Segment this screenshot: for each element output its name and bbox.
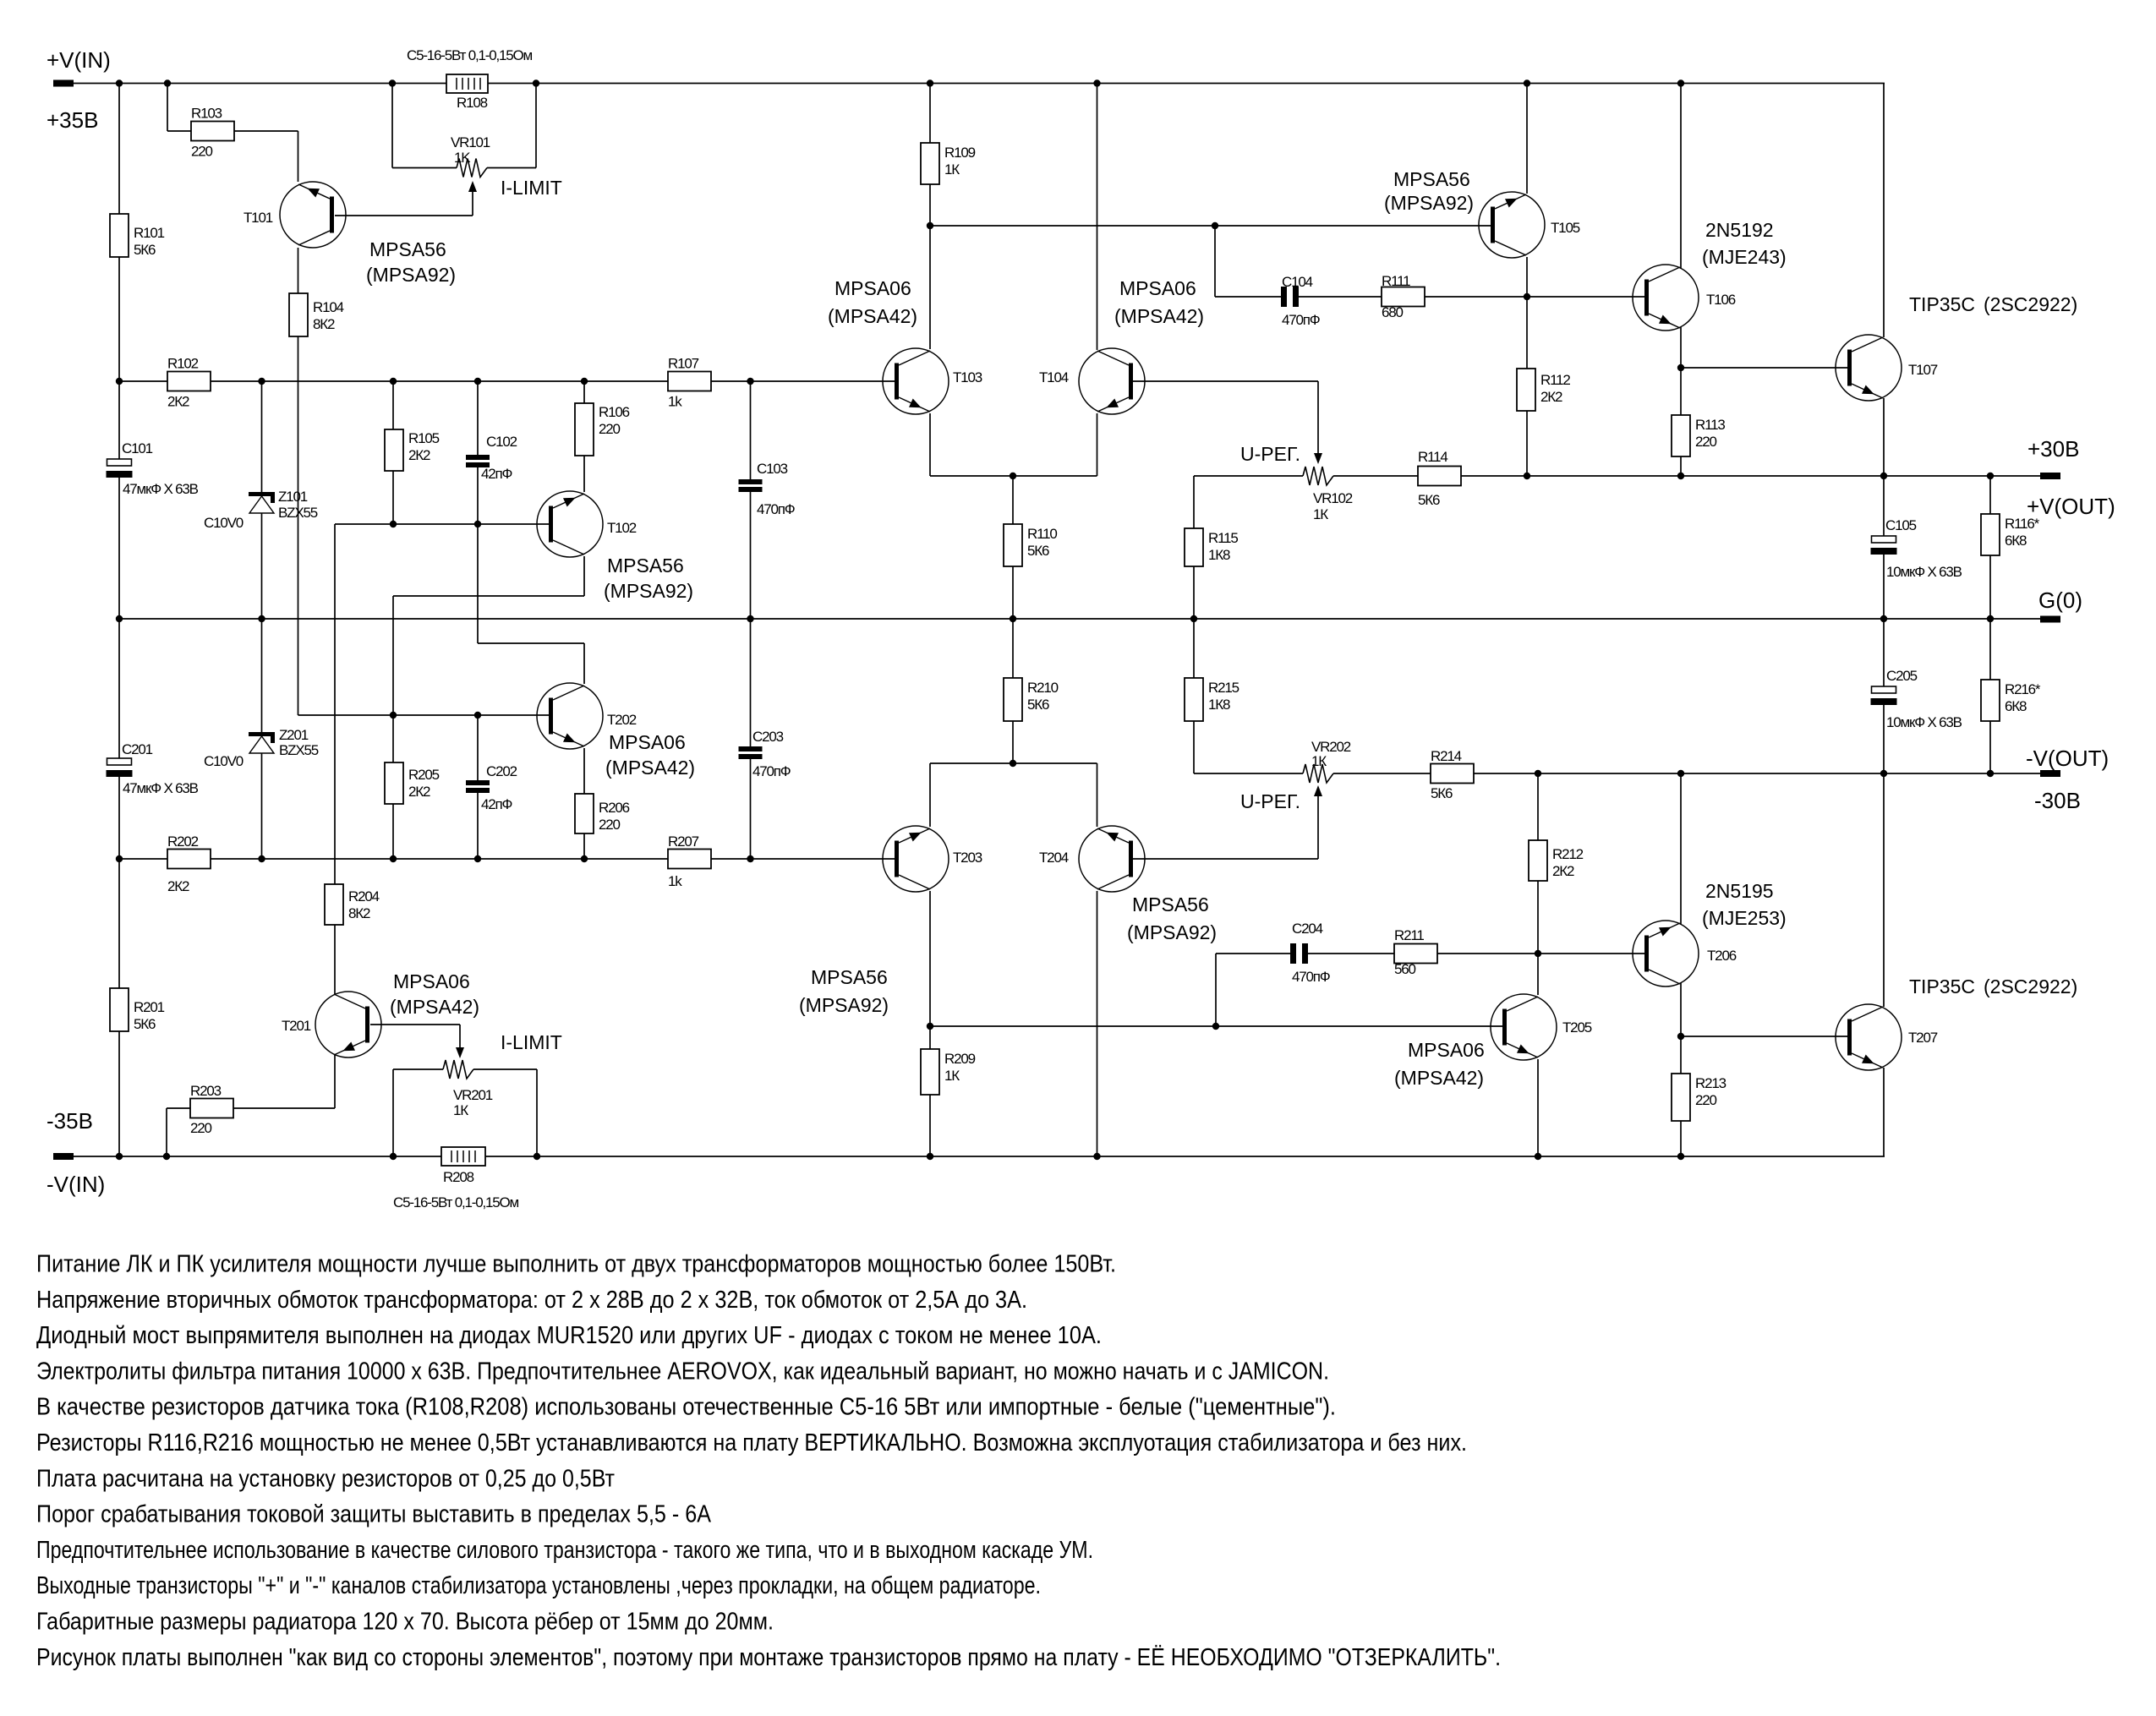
wire row C main	[119, 380, 895, 382]
svg-text:(MPSA42): (MPSA42)	[605, 757, 695, 779]
wire R111 to T105 collector	[1425, 296, 1527, 298]
svg-text:(2SC2922): (2SC2922)	[1984, 975, 2077, 997]
svg-text:R114: R114	[1418, 449, 1447, 465]
svg-text:(MJE253): (MJE253)	[1702, 907, 1787, 929]
resistor R105	[385, 429, 403, 471]
junction G rail / C103-C203	[747, 615, 753, 622]
wire C202 to row Cb	[477, 793, 479, 859]
svg-text:T105: T105	[1551, 220, 1580, 236]
wire VR102 to R114	[1333, 475, 1418, 477]
terminal bar -V(IN)	[53, 1153, 74, 1160]
junction T102 base row / C102	[474, 521, 481, 527]
svg-text:5К6: 5К6	[1027, 697, 1049, 713]
wire VR101 right lead vertical	[535, 84, 537, 168]
wire R116 to G rail	[1989, 555, 1991, 619]
svg-text:R206: R206	[599, 800, 630, 816]
svg-text:BZX55: BZX55	[278, 505, 318, 521]
resistor R104	[289, 293, 308, 336]
junction row C / R106	[581, 378, 588, 385]
resistor R205	[385, 762, 403, 804]
svg-text:2К2: 2К2	[167, 878, 189, 894]
svg-text:+35В: +35В	[47, 107, 98, 133]
resistor R109	[921, 143, 939, 184]
resistor R203	[190, 1099, 233, 1118]
wire T205 emitter down	[1537, 1059, 1539, 1156]
wire Z101 bottom lead	[261, 513, 263, 619]
junction G rail / R115-R215	[1190, 615, 1197, 622]
wire VR201 left lead vertical	[392, 1069, 394, 1156]
svg-text:В качестве резисторов датчика: В качестве резисторов датчика тока (R108…	[36, 1394, 1336, 1421]
svg-text:MPSA56: MPSA56	[369, 238, 446, 260]
svg-text:Диодный мост выпрямителя выпо: Диодный мост выпрямителя выполнен на дио…	[36, 1322, 1102, 1349]
wire row Cb main	[119, 858, 895, 860]
svg-text:47мкФ Х 63В: 47мкФ Х 63В	[123, 780, 199, 796]
capacitor C202	[466, 780, 490, 785]
svg-text:42пФ: 42пФ	[481, 796, 512, 812]
svg-text:Напряжение вторичных обмоток т: Напряжение вторичных обмоток трансформат…	[36, 1287, 1027, 1314]
wire T101 base to VR101 wiper	[335, 215, 473, 216]
capacitor C102	[466, 455, 490, 460]
transistor T103	[883, 348, 949, 414]
wire R216 to -V row	[1989, 721, 1991, 773]
wire T107 emitter down	[1883, 398, 1885, 476]
junction +30V / R116	[1987, 473, 1994, 479]
svg-text:470пФ: 470пФ	[1292, 969, 1330, 985]
svg-text:R201: R201	[134, 999, 165, 1015]
svg-text:R116*: R116*	[2005, 516, 2040, 532]
wire row B (T105 base row)	[930, 225, 1491, 227]
svg-text:2К2: 2К2	[1540, 389, 1562, 405]
svg-text:Резисторы R116,R216 мощностью: Резисторы R116,R216 мощностью не менее 0…	[36, 1429, 1467, 1456]
transistor T201	[315, 992, 381, 1057]
capacitor C201	[107, 758, 132, 765]
wire T204 collector down	[1097, 891, 1098, 1156]
wire R112 top lead	[1526, 297, 1528, 369]
svg-text:220: 220	[599, 421, 621, 437]
wire T202 emitter to R206	[583, 748, 585, 794]
wire T101 collector to R104	[298, 248, 299, 293]
svg-text:5К6: 5К6	[134, 242, 156, 258]
wire R101 to row C	[118, 257, 120, 381]
svg-text:-V(IN): -V(IN)	[47, 1172, 105, 1197]
junction row Cb / Z201	[258, 855, 265, 862]
wire R115 corner lead	[1194, 475, 1303, 477]
svg-text:5К6: 5К6	[1431, 785, 1453, 801]
svg-text:R209: R209	[944, 1051, 976, 1067]
svg-text:470пФ: 470пФ	[757, 501, 795, 517]
wire R103 left lead	[167, 130, 191, 132]
resistor R216	[1981, 680, 2000, 721]
wire R111 row to T106 base	[1527, 296, 1646, 298]
wire R115 to G rail	[1193, 566, 1195, 619]
resistor R202	[167, 850, 211, 869]
svg-text:+V(OUT): +V(OUT)	[2027, 494, 2115, 519]
wire R212 to R211 row	[1537, 881, 1539, 954]
svg-text:С5-16-5Вт 0,1-0,15Ом: С5-16-5Вт 0,1-0,15Ом	[407, 47, 533, 63]
resistor R101	[110, 214, 129, 257]
wire T202 base row to R205	[392, 715, 394, 762]
svg-text:42пФ: 42пФ	[481, 466, 512, 482]
junction row C / C103	[747, 378, 753, 385]
junction R211 row / R212	[1535, 950, 1541, 957]
junction +35V rail / R109	[927, 79, 933, 86]
wire R112 to +30V row	[1526, 411, 1528, 476]
wire -35V rail	[74, 1156, 1885, 1157]
wire jog down to T202 base row	[392, 596, 394, 715]
capacitor C104	[1281, 287, 1287, 307]
wire T104 base right	[1131, 380, 1318, 382]
junction +35V rail / R101 col	[116, 79, 123, 86]
svg-text:VR101: VR101	[451, 134, 490, 150]
svg-text:(MPSA92): (MPSA92)	[366, 264, 456, 286]
svg-text:T203: T203	[953, 850, 982, 866]
svg-text:2N5192: 2N5192	[1705, 219, 1774, 241]
svg-text:5К6: 5К6	[1027, 543, 1049, 559]
svg-text:-30В: -30В	[2034, 788, 2081, 813]
junction row Cb / C202	[474, 855, 481, 862]
wire emitter join row D	[930, 475, 1097, 477]
svg-text:R110: R110	[1027, 526, 1057, 542]
svg-text:Питание ЛК и ПК усилителя мощн: Питание ЛК и ПК усилителя мощности лучше…	[36, 1251, 1116, 1278]
wire C204 to R211	[1308, 953, 1394, 954]
wire T104 emitter down	[1097, 413, 1098, 476]
resistor R107	[668, 372, 711, 391]
svg-text:R103: R103	[191, 106, 222, 122]
svg-text:5К6: 5К6	[134, 1016, 156, 1032]
transistor T204	[1079, 826, 1145, 892]
svg-text:1К: 1К	[1313, 506, 1328, 522]
wire Z201 bottom lead	[261, 753, 263, 859]
svg-text:T103: T103	[953, 369, 982, 385]
wire R209 to -35V rail	[929, 1095, 931, 1156]
wiper arrow VR202	[1317, 795, 1319, 859]
wire T107 base row	[1681, 367, 1849, 369]
junction row D / R110	[1010, 473, 1016, 479]
wire R206 to row Cb	[583, 833, 585, 859]
svg-text:T101: T101	[244, 210, 273, 226]
wire VR101 left lead horizontal	[392, 167, 457, 169]
wire C204 left lead	[1216, 953, 1290, 954]
svg-text:G(0): G(0)	[2038, 587, 2082, 613]
wire C203 to row Cb	[750, 759, 752, 859]
wire R103 right lead	[234, 130, 298, 132]
svg-text:+30В: +30В	[2027, 436, 2079, 462]
wire C105 to G rail	[1883, 555, 1885, 619]
wire VR201 right lead vertical	[536, 1069, 538, 1156]
svg-text:C201: C201	[122, 741, 153, 757]
resistor R108 (current sense)	[446, 74, 488, 93]
wire R215 bottom lead	[1193, 721, 1195, 773]
resistor R112	[1517, 369, 1535, 411]
wire row Cb to R201	[118, 859, 120, 988]
junction -V / T206 collector	[1677, 770, 1684, 777]
wire T102 base row	[335, 523, 550, 525]
svg-text:1K: 1K	[454, 150, 471, 166]
svg-text:1k: 1k	[668, 873, 682, 889]
svg-text:Выходные транзисторы "+" и "-": Выходные транзисторы "+" и "-" каналов с…	[36, 1572, 1041, 1599]
wire rail to R109	[929, 84, 931, 144]
wire row C to R105	[392, 381, 394, 429]
resistor R209	[921, 1049, 939, 1095]
wire G(0) rail	[119, 618, 2040, 620]
svg-text:MPSA06: MPSA06	[834, 277, 911, 299]
svg-text:T201: T201	[282, 1018, 311, 1034]
wire -V row main	[1474, 773, 2040, 774]
resistor R207	[668, 850, 711, 869]
junction row C / left column	[116, 378, 123, 385]
svg-text:MPSA56: MPSA56	[1132, 894, 1209, 915]
wire R213 top lead	[1680, 1036, 1682, 1074]
svg-text:R212: R212	[1552, 846, 1584, 862]
svg-text:T107: T107	[1908, 362, 1938, 378]
resistor R103	[191, 122, 234, 141]
svg-text:470пФ: 470пФ	[752, 763, 791, 779]
wire R113 to +30V row	[1680, 456, 1682, 476]
svg-text:2К2: 2К2	[408, 447, 430, 463]
svg-text:R107: R107	[668, 356, 699, 372]
wire +35V rail	[74, 83, 1885, 85]
wire G rail to C201	[118, 619, 120, 758]
junction G rail / left column	[116, 615, 123, 622]
junction G rail / C105-C205	[1880, 615, 1887, 622]
transistor T106	[1633, 265, 1699, 331]
junction row Cb / R206	[581, 855, 588, 862]
svg-text:VR102: VR102	[1313, 490, 1353, 506]
svg-text:C10V0: C10V0	[204, 515, 244, 531]
svg-text:Плата расчитана на установку р: Плата расчитана на установку резисторов …	[36, 1465, 615, 1492]
wire +30V row main	[1461, 475, 2040, 477]
svg-text:47мкФ Х 63В: 47мкФ Х 63В	[123, 481, 199, 497]
wire emitter join row Db	[930, 762, 1097, 764]
capacitor C105	[1872, 536, 1896, 543]
wire Z201 top lead	[261, 619, 263, 732]
wire Z101 top lead	[261, 381, 263, 492]
junction T207 base row / T206 emitter	[1677, 1033, 1684, 1040]
transistor T203	[883, 826, 949, 892]
svg-text:(MJE243): (MJE243)	[1702, 246, 1787, 268]
wire T204 emitter up	[1097, 763, 1098, 827]
resistor R115	[1185, 528, 1203, 566]
wire T203 collector down	[929, 891, 931, 1026]
wire G rail to C203	[750, 619, 752, 746]
svg-text:MPSA06: MPSA06	[393, 970, 470, 992]
resistor R201	[110, 988, 129, 1031]
junction row Db / R210	[1010, 760, 1016, 767]
wire row C to C101	[118, 381, 120, 459]
junction -35V rail / R201	[116, 1153, 123, 1160]
svg-text:(MPSA42): (MPSA42)	[828, 305, 917, 327]
wire C101 to G rail	[118, 478, 120, 619]
svg-text:2К2: 2К2	[167, 394, 189, 410]
svg-text:6К8: 6К8	[2005, 533, 2027, 549]
svg-text:R102: R102	[167, 356, 199, 372]
svg-text:R105: R105	[408, 430, 440, 446]
svg-text:+V(IN): +V(IN)	[47, 47, 111, 73]
svg-text:(MPSA42): (MPSA42)	[1394, 1067, 1484, 1089]
wire T201 base to VR201 wiper	[370, 1024, 460, 1025]
svg-text:(MPSA42): (MPSA42)	[390, 996, 479, 1018]
wire G rail to R216	[1989, 619, 1991, 680]
svg-text:1К: 1К	[1311, 753, 1327, 769]
junction T202 base row / R205	[390, 712, 397, 719]
svg-text:R111: R111	[1382, 273, 1410, 289]
svg-text:1К8: 1К8	[1208, 697, 1230, 713]
wire VR201 right lead horizontal	[473, 1068, 537, 1070]
svg-text:T205: T205	[1562, 1019, 1592, 1036]
wire R201 to -35V rail	[118, 1031, 120, 1156]
junction +30V / R113	[1677, 473, 1684, 479]
wire +30V to C105	[1883, 476, 1885, 536]
junction row C / R105	[390, 378, 397, 385]
wire down to T202 collector	[583, 643, 585, 684]
wire T206 emitter down	[1680, 983, 1682, 1036]
svg-text:C103: C103	[757, 461, 788, 477]
junction -35V rail / R213	[1677, 1153, 1684, 1160]
junction +35V rail / T105 emitter	[1524, 79, 1530, 86]
wire T206 collector up	[1680, 773, 1682, 925]
terminal bar +V(IN)	[53, 80, 74, 87]
resistor R214	[1431, 764, 1474, 784]
transistor T206	[1633, 921, 1699, 986]
svg-text:C204: C204	[1292, 921, 1323, 937]
svg-text:-35В: -35В	[47, 1108, 93, 1134]
wire R109 to row B	[929, 184, 931, 226]
svg-text:Z201: Z201	[279, 727, 309, 743]
wire C104 branch down	[1214, 226, 1216, 297]
svg-text:(MPSA42): (MPSA42)	[1114, 305, 1204, 327]
svg-text:(MPSA92): (MPSA92)	[1384, 192, 1474, 214]
wire T103 collector	[929, 226, 931, 349]
svg-text:10мкФ Х 63В: 10мкФ Х 63В	[1886, 564, 1962, 580]
svg-text:U-РЕГ.: U-РЕГ.	[1240, 443, 1300, 465]
wire R211 row to T206 base	[1538, 953, 1646, 954]
wire VR101 left lead vertical	[391, 84, 393, 168]
junction row C / Z101	[258, 378, 265, 385]
wire C104 left lead	[1215, 296, 1281, 298]
junction +35V rail / R103	[164, 79, 171, 86]
junction T102 base row / R105	[390, 521, 397, 527]
capacitor C101	[107, 459, 132, 466]
zener diode Z101	[249, 492, 275, 496]
wire rail to R101	[118, 84, 120, 215]
svg-text:R115: R115	[1208, 530, 1238, 546]
svg-text:VR201: VR201	[453, 1087, 493, 1103]
svg-text:560: 560	[1394, 961, 1416, 977]
resistor R206	[575, 794, 594, 833]
terminal bar -V(OUT)	[2040, 770, 2060, 777]
capacitor C205	[1872, 686, 1896, 693]
junction T205 base row / R209	[927, 1023, 933, 1030]
wire R104 down long	[298, 336, 299, 715]
wire T207 base row	[1681, 1036, 1849, 1037]
svg-text:R101: R101	[134, 225, 165, 241]
svg-text:220: 220	[599, 817, 621, 833]
wire C201 to row Cb	[118, 777, 120, 859]
junction -V / C205	[1880, 770, 1887, 777]
junction +35V rail / VR101 right	[533, 79, 539, 86]
svg-text:Порог срабатывания токовой защ: Порог срабатывания токовой защиты выстав…	[36, 1501, 712, 1528]
wire R113 top lead	[1680, 368, 1682, 415]
svg-text:Рисунок платы выполнен "как ви: Рисунок платы выполнен "как вид со сторо…	[36, 1644, 1501, 1671]
wire C104 to R111	[1299, 296, 1382, 298]
junction -35V rail / R209	[927, 1153, 933, 1160]
svg-text:6К8: 6К8	[2005, 698, 2027, 714]
svg-text:(MPSA92): (MPSA92)	[799, 994, 889, 1016]
svg-text:220: 220	[1695, 434, 1717, 450]
svg-text:U-РЕГ.: U-РЕГ.	[1240, 790, 1300, 812]
wire R203 left lead	[167, 1107, 190, 1109]
junction -35V rail / T204 collector	[1093, 1153, 1100, 1160]
svg-text:R108: R108	[457, 95, 488, 111]
capacitor C203	[739, 746, 763, 751]
junction row Cb / C203	[747, 855, 753, 862]
junction -35V rail / VR201 right	[534, 1153, 540, 1160]
wire C204 branch up	[1215, 954, 1217, 1026]
svg-text:R104: R104	[313, 299, 344, 315]
wire T105 collector down	[1526, 257, 1528, 297]
svg-text:I-LIMIT: I-LIMIT	[501, 177, 562, 199]
svg-text:MPSA06: MPSA06	[609, 731, 686, 753]
svg-text:220: 220	[1695, 1092, 1717, 1108]
svg-text:2К2: 2К2	[408, 784, 430, 800]
svg-text:8К2: 8К2	[348, 905, 370, 921]
wire R213 to -35V rail	[1680, 1121, 1682, 1156]
wire R203 right lead	[233, 1107, 335, 1109]
svg-text:T202: T202	[607, 712, 637, 728]
wire R210 to G rail	[1012, 619, 1014, 678]
svg-text:T102: T102	[607, 520, 637, 536]
wire T202 base row	[298, 714, 551, 716]
transistor T205	[1491, 994, 1557, 1060]
resistor R114	[1418, 467, 1461, 486]
svg-text:1К8: 1К8	[1208, 547, 1230, 563]
wire jog right to T202 collector	[478, 642, 584, 644]
wire +30V to R116	[1989, 476, 1991, 514]
svg-text:BZX55: BZX55	[279, 742, 319, 758]
svg-text:(MPSA92): (MPSA92)	[604, 580, 693, 602]
resistor R204	[325, 884, 343, 925]
wire R204 to T201 collector	[334, 925, 336, 995]
terminal bar +30V	[2040, 473, 2060, 479]
wire R210 bottom lead	[1012, 721, 1014, 763]
wire R110 to G rail	[1012, 566, 1014, 619]
svg-text:-V(OUT): -V(OUT)	[2026, 746, 2109, 771]
transistor T102	[537, 491, 603, 557]
svg-text:TIP35C: TIP35C	[1909, 975, 1975, 997]
junction -V / R212	[1535, 770, 1541, 777]
svg-text:R216*: R216*	[2005, 681, 2041, 697]
resistor R116	[1981, 514, 2000, 555]
wire R215 corner lead	[1194, 773, 1303, 774]
svg-text:C102: C102	[486, 434, 517, 450]
svg-text:Габаритные размеры радиатора 1: Габаритные размеры радиатора 120 х 70. В…	[36, 1609, 774, 1636]
svg-text:220: 220	[191, 144, 213, 160]
svg-text:C202: C202	[486, 763, 517, 779]
svg-text:R215: R215	[1208, 680, 1239, 696]
wiper arrow VR201	[459, 1025, 461, 1048]
wire T207 collector up	[1883, 773, 1885, 1007]
wire C205 to -V row	[1883, 705, 1885, 773]
svg-text:1К: 1К	[944, 161, 960, 178]
wire T102 collector jog left	[393, 595, 584, 597]
resistor R102	[167, 372, 211, 391]
wire VR101 right lead horizontal	[487, 167, 536, 169]
svg-text:1k: 1k	[668, 394, 682, 410]
junction G rail / R110-R210	[1010, 615, 1016, 622]
wire R212 top lead	[1537, 773, 1539, 840]
wire R115 top lead	[1193, 476, 1195, 528]
junction row C / C102	[474, 378, 481, 385]
